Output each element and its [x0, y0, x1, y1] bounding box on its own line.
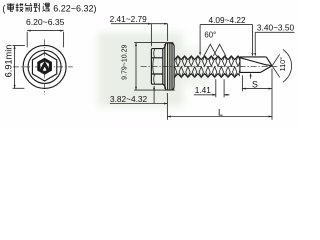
dimension 2.41~2.79	[110, 14, 168, 46]
dimension 3.40~3.50	[250, 22, 295, 78]
svg-text:9.79~10.29: 9.79~10.29	[122, 44, 129, 79]
dimension S	[242, 75, 272, 91]
svg-text:1.41: 1.41	[195, 85, 212, 95]
drill pilot section	[240, 57, 267, 73]
thread flank diamonds	[169, 56, 250, 77]
60 degree thread angle note	[204, 30, 226, 56]
washer outer circle	[23, 45, 66, 88]
svg-text:4.09~4.22: 4.09~4.22	[209, 15, 247, 25]
front view horizontal centerline	[13, 66, 73, 68]
thread end face	[239, 57, 241, 73]
svg-text:110°: 110°	[278, 57, 287, 71]
washer flange side view	[163, 43, 174, 90]
hexagon	[32, 53, 56, 81]
dimension 1.41 pitch	[194, 79, 230, 97]
thread profile bottom	[175, 74, 255, 78]
svg-text:3.82~4.32: 3.82~4.32	[110, 94, 148, 104]
dimension 9.79~10.29	[122, 43, 175, 91]
head logo hex ring	[37, 58, 52, 75]
head chamfer circle	[28, 50, 61, 83]
svg-text:(: (	[2, 3, 5, 13]
screw axis centerline	[141, 65, 278, 67]
dimension 6.20~6.35	[26, 17, 65, 47]
tint patch	[98, 33, 208, 106]
dimension 6.91min	[4, 45, 25, 89]
hex head side view	[151, 49, 162, 85]
svg-text:60°: 60°	[204, 30, 216, 39]
dimension L	[167, 69, 272, 120]
header note (plating note)	[2, 3, 96, 13]
head logo triangle	[40, 61, 50, 70]
110 degree point angle	[272, 50, 292, 83]
svg-text:S: S	[252, 79, 258, 89]
svg-text:3.40~3.50: 3.40~3.50	[257, 22, 295, 32]
svg-text:6.20~6.35: 6.20~6.35	[26, 17, 65, 27]
thread profile top	[171, 56, 251, 60]
front view vertical centerline	[44, 39, 46, 94]
svg-text:6.91min: 6.91min	[4, 45, 14, 78]
dimension 3.82~4.32	[110, 86, 168, 105]
svg-text:2.41~2.79: 2.41~2.79	[110, 14, 148, 24]
svg-text:6.22~6.32): 6.22~6.32)	[53, 3, 96, 13]
drill point cone	[261, 57, 272, 73]
dimension 4.09~4.22	[199, 15, 253, 57]
